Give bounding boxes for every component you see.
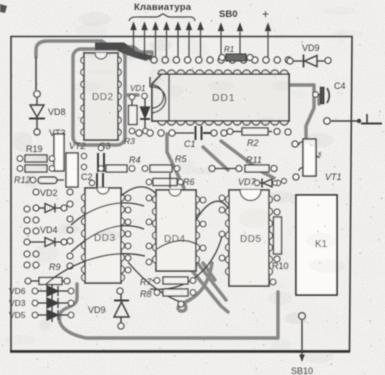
svg-text:DD1: DD1 [212,92,235,104]
svg-text:VD5: VD5 [9,310,26,320]
svg-text:R6: R6 [183,177,195,187]
svg-text:R2: R2 [247,138,259,148]
svg-text:R10: R10 [272,261,289,271]
svg-text:VT1: VT1 [325,172,342,182]
svg-text:R1: R1 [224,45,234,54]
svg-text:VD8: VD8 [48,107,66,117]
svg-text:R3: R3 [124,136,135,146]
svg-text:DD2: DD2 [92,92,114,103]
svg-text:R9: R9 [49,262,61,272]
svg-text:SB0: SB0 [219,9,237,20]
svg-text:+: + [262,7,269,21]
svg-text:VD3: VD3 [9,298,26,308]
svg-text:VD1: VD1 [130,84,146,93]
svg-text:R7: R7 [140,277,152,287]
svg-text:VD6: VD6 [9,286,26,296]
svg-text:VD9: VD9 [302,43,320,53]
svg-text:C1: C1 [184,139,196,149]
svg-text:VD2: VD2 [40,188,58,198]
svg-text:x: x [318,151,322,158]
svg-text:SB10: SB10 [291,366,313,375]
svg-text:VD9: VD9 [88,305,106,315]
svg-text:VT2: VT2 [69,141,86,151]
svg-text:C4: C4 [334,81,346,91]
svg-text:VD7: VD7 [238,177,257,187]
svg-text:R11: R11 [246,155,262,165]
svg-text:R8: R8 [140,289,152,299]
svg-text:R4: R4 [129,155,141,165]
svg-text:Клавиатура: Клавиатура [134,2,192,13]
